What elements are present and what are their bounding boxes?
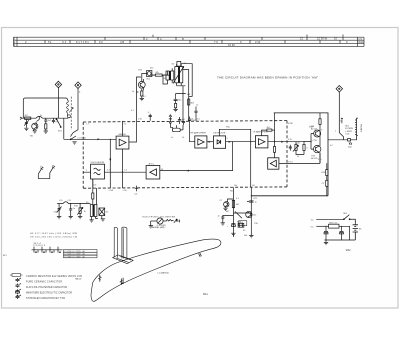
svg-text:10 30: 10 30 <box>228 43 235 47</box>
junction dots bias bus <box>70 203 81 204</box>
antenna connector AE1 (diamond) <box>55 81 61 88</box>
svg-text:1k: 1k <box>132 91 134 93</box>
svg-text:4 B: 4 B <box>120 40 124 44</box>
wire cap stub <box>176 94 186 110</box>
terminal arrow T1 <box>169 115 173 128</box>
aerial mounting bracket <box>113 227 134 264</box>
svg-text:OSCILLATOR: OSCILLATOR <box>90 161 104 164</box>
wire if to detector <box>207 141 214 143</box>
monitor amplifier block U7 <box>268 158 279 169</box>
svg-text:0.5W: 0.5W <box>288 123 293 125</box>
trimmer box S2a <box>172 61 181 66</box>
record chain wire A <box>232 188 234 238</box>
trimmer C1 <box>24 119 29 130</box>
legend ceramic cap symbol <box>16 278 22 282</box>
resistor R47 emitter <box>303 141 308 154</box>
resistor R44 <box>273 147 275 158</box>
svg-text:LF-AMPLIFIER: LF-AMPLIFIER <box>253 131 268 134</box>
svg-text:5 1: 5 1 <box>48 40 52 44</box>
wire arrow to mixer <box>98 138 101 140</box>
transistor TS2 converter <box>138 70 145 101</box>
svg-text:4.7k: 4.7k <box>288 139 292 141</box>
resistor R15 <box>175 103 177 107</box>
capacitor C36 <box>69 204 76 219</box>
legend electrolytic symbol <box>16 289 22 294</box>
boundary crossing labels <box>87 119 294 192</box>
lf amplifier block U6 <box>253 131 268 148</box>
voltmeter circuit <box>149 218 180 228</box>
coil L2 aerial <box>67 100 71 118</box>
avc block U3 <box>146 163 160 180</box>
svg-text:1k: 1k <box>84 211 86 213</box>
svg-text:1n: 1n <box>171 137 173 139</box>
svg-text:C·1738 / C·1739 · 40: C·1738 / C·1739 · 40 <box>64 256 85 258</box>
antenna connector AE2 (diamond) <box>75 82 81 89</box>
ground converter <box>173 109 177 111</box>
capacitor C65 <box>340 226 344 240</box>
transistor TS9 <box>311 145 321 160</box>
legend resistor symbol <box>10 274 23 277</box>
wire oscillator bus <box>83 171 146 173</box>
svg-text:L4SR: L4SR <box>192 120 198 122</box>
junction tick on boundary <box>135 186 139 196</box>
oscillator coil S2 variable <box>173 64 184 86</box>
capacitor C64 <box>324 226 328 240</box>
svg-text:HF-AMPLIFIER: HF-AMPLIFIER <box>191 131 207 134</box>
svg-text:L7HI: L7HI <box>109 190 114 192</box>
svg-text:A.V.C.: A.V.C. <box>149 163 156 166</box>
wire oscillator to bias <box>93 179 97 205</box>
svg-text:12 30 W: 12 30 W <box>317 37 327 41</box>
erase head K2 <box>99 208 109 221</box>
svg-text:W20: W20 <box>358 40 364 44</box>
jack plug 1 <box>38 166 43 179</box>
svg-text:7 6: 7 6 <box>214 40 218 44</box>
wire lf output <box>268 141 311 143</box>
wire output stage left vertical <box>274 113 276 147</box>
wire converter right bus <box>163 70 189 121</box>
IF transformer S1 <box>166 68 174 84</box>
svg-text:R65 0.22: R65 0.22 <box>329 222 338 224</box>
wire supply minus <box>311 226 329 228</box>
svg-text:STYROFLEX CAPACITOR KEY T 5%: STYROFLEX CAPACITOR KEY T 5% <box>26 297 65 300</box>
legend styroflex symbol <box>16 295 22 299</box>
resistor R36 <box>92 193 94 199</box>
capacitor C57 chain <box>227 224 235 228</box>
svg-text:1n: 1n <box>255 202 257 204</box>
svg-text:MINIATURE ELECTROLYTIC CAPACIT: MINIATURE ELECTROLYTIC CAPACITOR <box>26 292 72 295</box>
wire supply bottom <box>324 239 355 241</box>
resistor R46 top <box>319 113 321 130</box>
fuse resistor box R65 <box>329 222 350 240</box>
svg-text:CARBON RESISTOR E12 SERIES UNI: CARBON RESISTOR E12 SERIES UNION 10% <box>26 275 82 278</box>
capacitor C58 <box>247 201 257 204</box>
bias oscillator bus <box>57 202 90 204</box>
transistor TS5 <box>246 211 257 217</box>
svg-text:1n: 1n <box>218 215 220 217</box>
resistor R17 bus <box>188 97 195 106</box>
ferrite aerial rod outline <box>91 239 221 301</box>
svg-text:PHONES: PHONES <box>360 124 362 133</box>
svg-text:45C: 45C <box>267 127 271 129</box>
svg-text:L1 (AE506): L1 (AE506) <box>158 272 169 275</box>
part table box 2 <box>64 252 98 255</box>
tuning dashed link with arrow <box>69 97 73 130</box>
transistor TS8 <box>311 126 324 137</box>
junction dots oscillator <box>122 171 123 172</box>
low branch RC <box>218 215 234 225</box>
junction dots detector line <box>232 141 251 142</box>
preset R45 <box>293 142 304 155</box>
wire BU1 stem <box>339 92 343 140</box>
wire detector top feedback <box>219 129 250 187</box>
svg-text:PURE CERAMIC CAPACITOR: PURE CERAMIC CAPACITOR <box>26 280 62 283</box>
wire converter top <box>142 64 192 97</box>
svg-text:MA 1b: MA 1b <box>75 278 82 281</box>
label socket rows <box>345 126 353 136</box>
capacitor C14 <box>174 94 183 104</box>
wire converter left bus <box>137 77 142 121</box>
svg-text:MA2: MA2 <box>346 249 351 252</box>
hf amplifier block U4 <box>191 131 207 148</box>
svg-text:LW 150–260 kHz (1150–2000m) LW: LW 150–260 kHz (1150–2000m) LW <box>30 237 78 239</box>
junction labels converter <box>132 91 201 121</box>
svg-text:1 2 3 4 5 6 7 8: 1 2 3 4 5 6 7 8 <box>33 245 45 247</box>
wire bus to switch node <box>58 98 63 139</box>
svg-text:6 1 7 1 8 1: 6 1 7 1 8 1 <box>76 40 89 44</box>
detector block U5 <box>213 132 225 148</box>
svg-text:2.10: 2.10 <box>255 40 261 44</box>
junction dot output base <box>310 141 311 142</box>
svg-text:1k: 1k <box>182 137 184 139</box>
svg-text:THE CIRCUIT DIAGRAM HAS BEEN D: THE CIRCUIT DIAGRAM HAS BEEN DRAWN IN PO… <box>217 75 318 79</box>
locator strip row labels <box>14 37 364 47</box>
if filter coil <box>172 125 183 132</box>
jack plug 2 <box>38 165 55 179</box>
ground supply <box>324 240 328 245</box>
svg-text:L2 AERIAL (AM): L2 AERIAL (AM) <box>149 226 164 229</box>
wire input riser <box>109 139 111 188</box>
coil clamp mark <box>120 278 124 285</box>
capacitor C5 <box>52 118 60 123</box>
wire monitor output <box>279 153 320 164</box>
wire socket bottom <box>328 136 357 145</box>
capacitor C18 stub2 <box>194 107 197 121</box>
resistor R42 feedback <box>262 127 275 136</box>
external connector BU1 (diamond) <box>336 86 342 93</box>
switch contact a to mixer <box>64 133 116 140</box>
capacitor C22 plates <box>188 119 197 122</box>
wire output interconnect <box>308 130 320 163</box>
svg-text:C 4: C 4 <box>62 40 67 44</box>
part table box 3 <box>64 255 98 258</box>
playback chain wire B <box>250 187 252 235</box>
svg-text:2n: 2n <box>40 115 42 117</box>
head link wire <box>233 212 251 219</box>
svg-text:2n: 2n <box>73 208 75 210</box>
svg-text:H1C: H1C <box>226 127 231 129</box>
preset R33 <box>77 204 85 219</box>
wire input loop <box>23 98 67 118</box>
mixer block U1 <box>116 134 129 149</box>
output stage frame box <box>251 113 328 196</box>
wire AE1 stem <box>57 88 59 98</box>
resistor chain R50 <box>322 163 328 196</box>
bias transformer S5 <box>86 202 98 222</box>
wire avc feed <box>160 142 233 172</box>
record head K1 <box>237 221 244 227</box>
scattered value labels <box>30 63 343 237</box>
component locator strip <box>14 35 365 47</box>
wire input bus <box>20 117 68 119</box>
resistor R1 in bus <box>25 115 31 119</box>
legend foil cap symbol <box>16 284 22 288</box>
battery B1 <box>353 224 363 240</box>
svg-text:12: 12 <box>300 37 303 41</box>
board boundary dashed box <box>83 121 287 189</box>
capacitor C47 <box>289 145 292 151</box>
phone connector strip <box>355 118 358 136</box>
svg-text:HF 517–1622 kHz (185–580m) MW: HF 517–1622 kHz (185–580m) MW <box>30 233 78 235</box>
svg-text:1k: 1k <box>297 156 299 158</box>
bus crossover hump <box>36 116 43 118</box>
wire AE2 stem <box>73 89 78 133</box>
ground chainA <box>231 233 235 235</box>
svg-text:3.2Ω: 3.2Ω <box>345 132 350 135</box>
wire supply plus <box>311 219 344 221</box>
svg-text:HIC: HIC <box>182 119 186 121</box>
part label box chainB <box>239 221 247 227</box>
svg-text:L 750: L 750 <box>312 140 318 142</box>
transistor TS4 <box>219 199 233 211</box>
capacitor C21 plates <box>178 117 185 125</box>
svg-text:MA1: MA1 <box>203 293 208 296</box>
svg-text:a 0.5mA: a 0.5mA <box>78 136 87 139</box>
svg-text:FLAT-FOIL POLYESTER CAPACITOR: FLAT-FOIL POLYESTER CAPACITOR <box>26 286 67 289</box>
svg-text:B: B <box>182 37 184 41</box>
ground switch <box>72 142 76 144</box>
crystal filter box <box>146 71 152 81</box>
capacitor C16 stub <box>148 112 152 121</box>
switch SK2 blade <box>343 215 355 224</box>
svg-text:L7H: L7H <box>123 190 127 192</box>
oscillator block U2 <box>90 161 104 188</box>
terminal V <box>341 118 343 123</box>
ground chainB <box>249 236 253 238</box>
resistor R12 <box>150 72 169 76</box>
wire if riser <box>182 86 184 130</box>
wire mixer output <box>129 121 137 142</box>
svg-text:10: 10 <box>334 37 337 41</box>
trimmer C33 <box>54 204 62 219</box>
left end clamp mark <box>98 275 101 282</box>
transistor TS1 input <box>32 116 40 133</box>
switch position strip SK1 <box>32 245 63 253</box>
wire mixer bottom <box>122 121 124 188</box>
wire detector to lf <box>226 141 256 143</box>
right tick mark <box>199 253 202 257</box>
resistor R61 <box>230 191 240 208</box>
wire hf amp input <box>190 117 195 142</box>
svg-text:9 2: 9 2 <box>99 40 103 44</box>
capacitor C4 chain <box>44 118 52 133</box>
part table box 1 <box>64 250 98 253</box>
band switch SK1a contact <box>56 118 61 127</box>
junction chainB <box>251 195 252 196</box>
